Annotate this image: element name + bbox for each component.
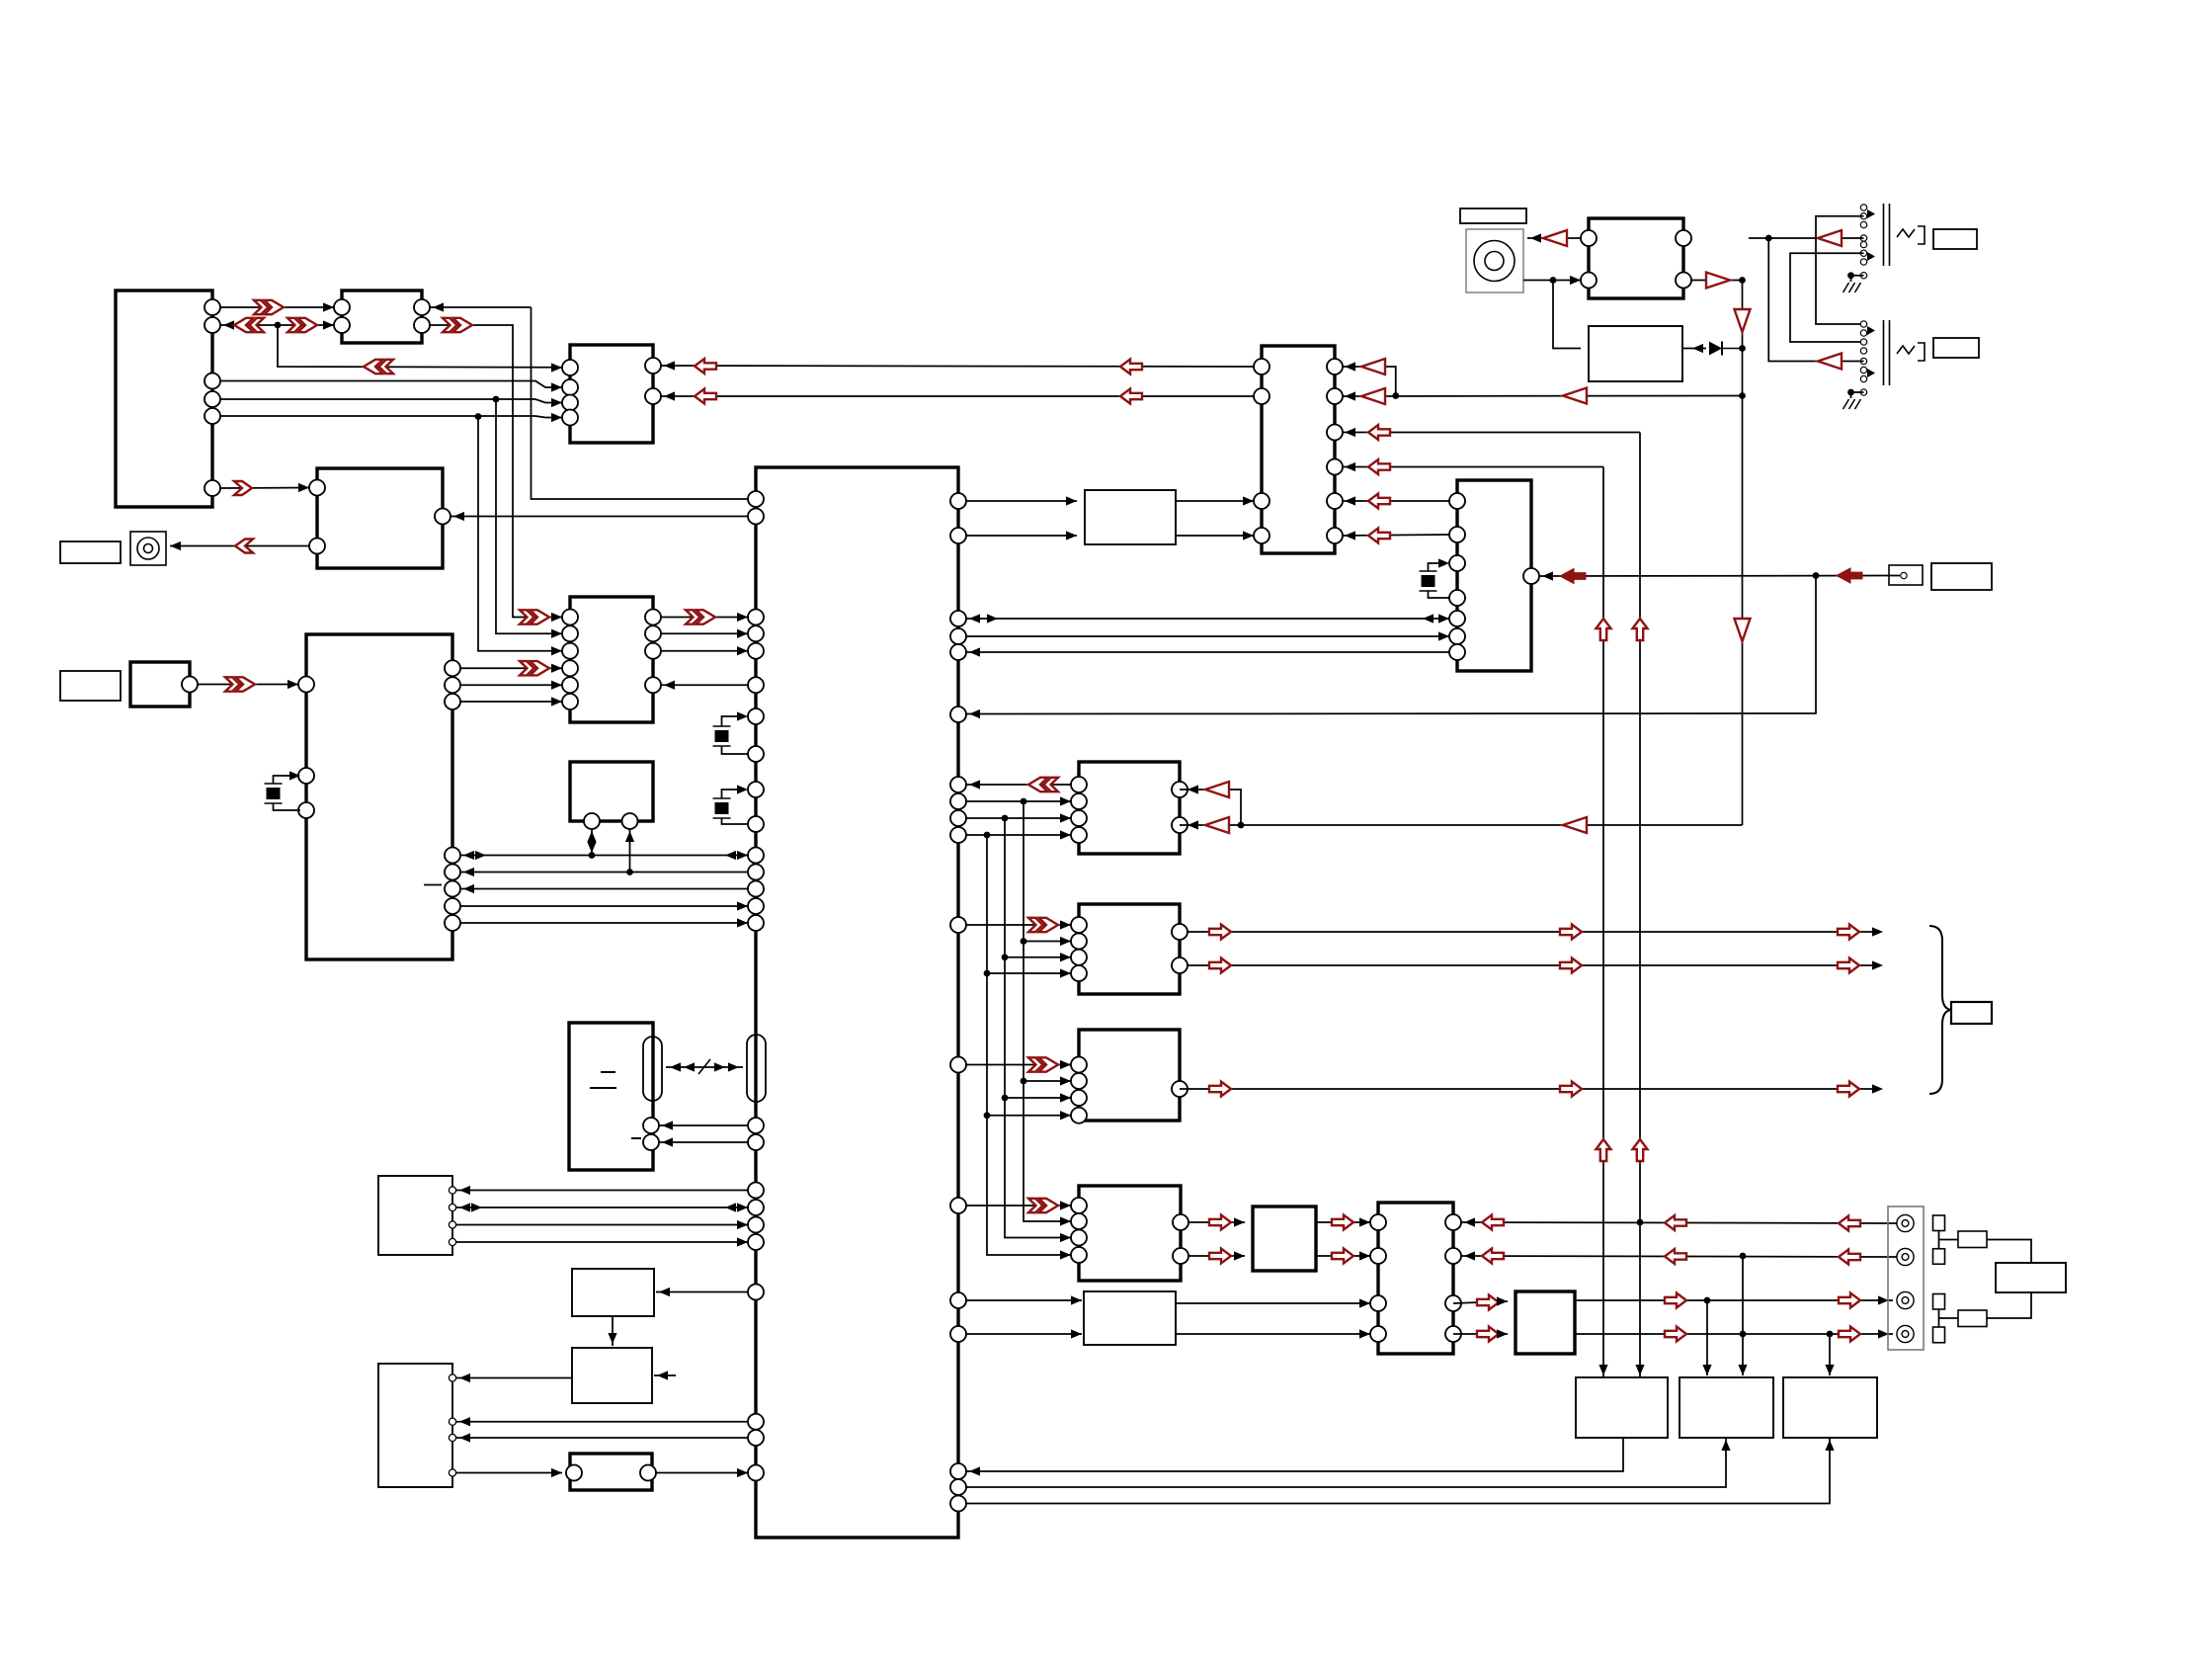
arrowhead into U13 <box>551 1468 562 1477</box>
arrowhead into U10 xtal <box>289 771 300 780</box>
wire U6 out1 to U5 <box>1176 500 1254 502</box>
power arrow left d <box>1368 459 1390 474</box>
out arrow R b <box>1560 958 1582 973</box>
wire supply into U5 pin3 <box>1343 432 1640 434</box>
up arrow on rail x1660 a <box>1633 619 1648 640</box>
wire U8 to M1 d0 <box>661 617 748 619</box>
wire J4 switch to J5 <box>1816 216 1864 324</box>
wire U8 to M1 d2 <box>661 650 748 652</box>
spk arrow left 1b <box>1665 1215 1686 1230</box>
up arrow on rail x1660 b <box>1633 1139 1648 1161</box>
junction on data3 <box>475 413 482 420</box>
arrowhead into G1 out2 <box>1188 820 1198 829</box>
wire G1 to M1 line1 <box>966 784 1071 786</box>
bus arrow right head <box>520 661 549 675</box>
diode D1 <box>1709 342 1722 356</box>
wire MCU to U6 in2 <box>966 535 1077 537</box>
arrowhead into S1 line2 <box>459 1203 470 1211</box>
wire MCU to U7 bus2 <box>966 635 1449 637</box>
U1 pin circles <box>205 299 220 496</box>
U4 pin circles <box>309 480 451 554</box>
junction spk L <box>1637 1219 1644 1226</box>
crystal X2 lead2 <box>722 746 749 754</box>
arrowhead into U7 remote <box>1542 571 1553 580</box>
M1 right pin circles <box>950 493 966 1512</box>
power key block S2 <box>378 1364 452 1487</box>
wire S1 line4 to M1 <box>456 1241 748 1243</box>
arrowhead into U2 pin2 <box>323 320 334 329</box>
wire vertical x502 to U8 pin2 <box>496 399 562 633</box>
CN3 terminal circles <box>1897 1214 1914 1342</box>
T901 pin circles <box>1581 230 1691 289</box>
arrowhead into U5 pin3 <box>1345 428 1355 437</box>
wire U1 data2 to U3 <box>220 399 562 403</box>
triangle arrow left inlet <box>1543 230 1567 246</box>
U7 pin circles <box>1449 493 1539 660</box>
arrowhead mark M1 key2 <box>725 1203 736 1211</box>
U2 pin circles <box>334 299 430 333</box>
arrowhead into U3 right pin2 <box>664 391 675 400</box>
label remnant dash B9 <box>424 884 442 886</box>
arrowhead aux out <box>1872 1084 1883 1093</box>
AC inlet J3 <box>1466 229 1523 292</box>
arrowhead into A3 ch1 <box>1359 1217 1370 1226</box>
rectifier block PS1 <box>1589 326 1682 381</box>
wire CN1 to U10 <box>198 684 298 686</box>
wire R1 to speaker box <box>1987 1240 2031 1264</box>
arrowhead line out R <box>1872 960 1883 969</box>
wire M1 to BT1 sense1 <box>659 1124 748 1126</box>
triangle arrow left b <box>1361 388 1385 404</box>
wire M1 to G3 <box>966 1064 1071 1066</box>
crystal X1 lead2 <box>274 803 301 810</box>
remote sensor jack J6 <box>1889 565 1923 585</box>
spk arrow right 5b <box>1839 1293 1860 1308</box>
wire A4 to speaker conn 2 <box>1575 1333 1893 1335</box>
regulator T2 <box>1679 1377 1773 1438</box>
bus arrow left <box>234 318 264 332</box>
bus arrow right G4 <box>1028 1199 1058 1212</box>
wire bus x519 into U8 <box>513 617 562 619</box>
arrowhead into BT1 s2 <box>662 1137 673 1146</box>
wire G1 out1 <box>1180 790 1241 825</box>
arrowhead into inlet <box>1530 233 1541 242</box>
wire remote branch to M1 <box>966 576 1816 714</box>
connector capsule CN2a <box>643 1037 662 1101</box>
stub into U12 right <box>654 1374 676 1376</box>
arrowhead into G3 l2 <box>1060 1076 1071 1085</box>
wire power line into U3 right pin2 <box>661 395 1254 397</box>
line out R wire <box>1188 964 1879 966</box>
wire power line into U3 right pin1 <box>661 366 1254 367</box>
wire U11 down to U12 <box>612 1316 614 1346</box>
arrowhead into U7 bus1 <box>1423 614 1434 623</box>
arrowhead into A3 sp1 <box>1464 1217 1475 1226</box>
power arrow left A2 <box>1120 360 1142 374</box>
tap wire G3 l2 <box>1024 1080 1071 1082</box>
junction G2 l3 <box>1002 954 1009 960</box>
wire U6 out2 to U5 <box>1176 535 1254 537</box>
U8 pin circles <box>562 610 661 710</box>
wire M1 to U11 <box>656 1291 748 1293</box>
label box J4 <box>1933 229 1977 249</box>
wire T3 bottom to M1 <box>966 1438 1830 1504</box>
ground symbol J4 <box>1843 283 1861 292</box>
tape bus line 5 <box>460 922 748 924</box>
arrowhead out MCU bus1 <box>987 614 998 623</box>
junction J4 tip <box>1765 235 1772 242</box>
arrowhead into U3 right pin1 <box>664 361 675 370</box>
arrowhead up into U9 pin1 <box>587 831 596 842</box>
crystal X3 lead2 <box>722 818 749 824</box>
arrowhead left tape1 <box>463 851 474 860</box>
arrowhead line out L <box>1872 927 1883 936</box>
junction inlet low <box>1550 277 1557 284</box>
arrowhead into U5 right pin1 <box>1345 362 1355 371</box>
power arrow left B2 <box>1120 389 1142 404</box>
chevron arrow right <box>234 481 252 495</box>
wire MCU to U7 bus1 <box>966 618 1449 620</box>
IC U2 front-end block <box>342 291 422 343</box>
speaker terminal sq4 <box>1933 1327 1945 1343</box>
arrowhead into U6 in1 <box>1066 496 1077 505</box>
solid arrow left remote b <box>1560 569 1586 584</box>
IC U8 CD processor <box>570 597 653 722</box>
wire A2 to A3 ch2 <box>1316 1255 1370 1257</box>
J5 body <box>1867 320 1925 385</box>
wire U12 to S2 <box>456 1377 572 1379</box>
A3 pin circles <box>1370 1214 1461 1342</box>
key matrix block S1 <box>378 1176 452 1255</box>
regulator T1 <box>1576 1377 1668 1438</box>
arrowhead into U5 pin6 <box>1345 531 1355 540</box>
speaker wire to R1 <box>1939 1239 1959 1241</box>
IC U3 IF block <box>570 345 653 443</box>
wire U1 data3 to U3 <box>220 416 562 418</box>
wire remote line <box>1539 575 1900 578</box>
ground symbol J5 <box>1843 399 1861 409</box>
U13 pin circles <box>566 1465 656 1481</box>
wire MCU to U6 in1 <box>966 500 1077 502</box>
tap wire G2 l3 <box>1005 957 1071 958</box>
crystal X4 leads <box>1429 563 1448 571</box>
wire M1 to G1 line4 <box>966 834 1071 836</box>
wire U5 right 371 to rail corner <box>1343 367 1396 396</box>
speaker connector CN3 <box>1888 1206 1924 1350</box>
wire spk junction to T2 b <box>1742 1256 1744 1375</box>
U10 left pin circles <box>298 677 314 819</box>
wire U9 pin2 to tape bus2 <box>629 829 631 873</box>
arrowhead into T901 low <box>1570 276 1581 285</box>
wire J5 tip line up to J4 <box>1768 238 1863 362</box>
wire U7 to MCU bus3 <box>966 651 1449 653</box>
wire G4 to A2 ch1 <box>1188 1221 1245 1223</box>
wire M1 to U8 d3 <box>661 684 748 686</box>
arrowhead into U2 right pin1 <box>433 302 444 311</box>
J4 body <box>1867 204 1925 266</box>
wire MCU to U4 enable <box>451 516 748 518</box>
wire U8 to M1 d1 <box>661 632 748 634</box>
IC U6 interface buffer <box>1085 490 1176 544</box>
out arrow R c <box>1838 958 1859 973</box>
wire A2 to A3 ch1 <box>1316 1221 1370 1223</box>
tape bus line 2 <box>460 872 748 874</box>
wire U1 to U2 top <box>220 306 334 308</box>
arrowhead into G2 l3 <box>1060 953 1071 961</box>
wire M1 to G2 <box>966 924 1071 926</box>
arrowhead into T2 top b <box>1738 1365 1747 1375</box>
wire U1 to U4 <box>220 487 309 490</box>
arrowhead into BT1 s1 <box>662 1121 673 1129</box>
spk arrow left 2b <box>1665 1249 1686 1264</box>
headphone jack J4 contacts <box>1860 205 1866 279</box>
arrowhead into M1 g1 <box>969 780 980 789</box>
tap wire G2 l4 <box>987 972 1071 974</box>
arrowhead mark S1 line2 <box>471 1203 482 1211</box>
arrowhead into M1 tape4 <box>737 901 748 910</box>
arrowhead into M1 xtal3 <box>737 785 748 793</box>
vertical bus xB <box>1005 818 1071 1238</box>
out arrow A3b <box>1332 1249 1353 1264</box>
arrowhead into G3 l3 <box>1060 1093 1071 1102</box>
arrowhead into A3 ch2 <box>1359 1251 1370 1260</box>
junction spk 4b <box>1827 1331 1834 1338</box>
crystal X3 leads <box>722 790 747 798</box>
connector CN1 motor <box>130 662 190 707</box>
crystal X2 <box>713 726 731 746</box>
line out L wire <box>1188 931 1879 933</box>
IC U10 tape mechanism controller <box>306 634 452 959</box>
arrowhead into U4 right pin <box>453 512 464 521</box>
IC A3 power amplifier <box>1378 1203 1453 1354</box>
arrowhead into G1 l2 <box>1060 796 1071 805</box>
arrowhead into G3 l4 <box>1060 1111 1071 1120</box>
regulator T3 <box>1783 1377 1877 1438</box>
junction spk 4a <box>1740 1331 1747 1338</box>
wire U1 data1 to U3 <box>220 381 562 388</box>
triangle arrow left G1b <box>1205 817 1229 833</box>
arrowhead into U3 pin4 <box>551 413 562 422</box>
solid arrow left remote a <box>1837 568 1862 583</box>
junction G2 l4 <box>984 970 991 977</box>
arrowhead into U3 pin2 <box>551 382 562 391</box>
arrowhead into S1 line1 <box>459 1186 470 1195</box>
S2 pin circles <box>449 1374 455 1476</box>
label box AC <box>1460 208 1526 223</box>
wire spk junction to T3 <box>1829 1334 1831 1375</box>
wire S2 to U13 <box>456 1472 562 1474</box>
arrowhead into conn 1 <box>1878 1295 1889 1304</box>
bus arrow right U8 <box>686 610 715 624</box>
power arrow left B <box>695 389 716 404</box>
arrowhead into S2 line2 <box>459 1433 470 1442</box>
out arrow X a <box>1209 1082 1231 1097</box>
tap wire G3 l3 <box>1005 1097 1071 1099</box>
junction g4 tap <box>984 832 991 839</box>
bus arrow right <box>254 300 284 314</box>
wire U2 out top from vertical bus <box>430 306 532 308</box>
IC G2 audio DAC <box>1079 904 1180 994</box>
arrowhead into A3 in4 <box>1359 1329 1370 1338</box>
G1 pin circles <box>1071 777 1188 843</box>
junction G3 l3 <box>1002 1095 1009 1102</box>
bus arrow right 2 <box>287 318 317 332</box>
arrowhead into MCU bus1 <box>969 614 980 623</box>
arrowhead up into U9 pin2 <box>625 831 634 842</box>
spk arrow right 6b <box>1839 1327 1860 1342</box>
arrowhead into A4 in1 <box>1497 1296 1508 1305</box>
arrowhead into U5 pin4 <box>1345 462 1355 471</box>
arrowhead into U7 xtal pin <box>1438 558 1449 567</box>
arrowhead into mute1 <box>1071 1295 1082 1304</box>
arrowhead into U6 in2 <box>1066 531 1077 540</box>
supply rail vertical x1623 <box>1602 467 1604 1378</box>
wire G1 out2 to rail <box>1180 824 1743 826</box>
arrowhead into G1 l4 <box>1060 830 1071 839</box>
arrowhead up into T2 bottom <box>1721 1440 1730 1451</box>
junction spk 3 <box>1704 1297 1711 1304</box>
bus arrow double left <box>364 360 393 374</box>
wire M1 to G1 line2 <box>966 800 1071 802</box>
resistor R2 <box>1958 1310 1987 1327</box>
ribbon bus CN2 <box>666 1066 743 1068</box>
speaker terminal sq3 <box>1933 1294 1945 1310</box>
arrowhead into mute2 <box>1071 1329 1082 1338</box>
wire M1 to mute2 <box>966 1333 1082 1335</box>
arrowhead into M1 key3 <box>737 1220 748 1229</box>
arrowhead into U5 pin5 <box>1345 496 1355 505</box>
curly brace line out <box>1929 926 1951 1094</box>
wire A3 out3 to A4 <box>1453 1301 1508 1303</box>
arrowhead down on U9 stub <box>587 842 596 853</box>
arrowhead into G3 <box>1060 1060 1071 1069</box>
arrowhead into M1 tape5 <box>737 918 748 927</box>
out arrow A2b <box>1209 1249 1231 1264</box>
arrowhead into A4 in2 <box>1497 1329 1508 1338</box>
arrowhead into G4 l3 <box>1060 1233 1071 1242</box>
wire M1 to G4 <box>966 1205 1071 1206</box>
junction rail top <box>1739 277 1746 284</box>
wire M1 to mute1 <box>966 1299 1082 1301</box>
tape bus line 4 <box>460 905 748 907</box>
crystal X3 <box>713 798 731 818</box>
U10 right pin circles <box>445 660 460 931</box>
arrowhead into G1 out1 <box>1188 785 1198 793</box>
resistor R1 <box>1958 1231 1987 1248</box>
IC U9 servo driver <box>570 762 653 821</box>
power arrow left c <box>1368 425 1390 440</box>
wire mute to A3 in4 <box>1176 1333 1370 1335</box>
M1 left pin circles <box>748 491 764 1481</box>
battery block BT1 <box>569 1023 653 1170</box>
junction node A <box>275 322 282 329</box>
up arrow on rail x1623 b <box>1597 1139 1611 1161</box>
arrowhead into M1 t1 <box>969 1466 980 1475</box>
up arrow on rail x1623 a <box>1597 619 1611 640</box>
bus arrow left G1 <box>1028 778 1058 791</box>
wire J4 tip line <box>1749 237 1864 239</box>
junction rail y400 <box>1392 392 1399 399</box>
arrowhead into U8 pin2 <box>551 629 562 638</box>
wire U10 to U8 head1 <box>460 667 562 669</box>
wire U2 to U1 return <box>220 324 334 326</box>
tap wire G2 l2 <box>1024 941 1071 943</box>
IC U7 system microcontroller <box>1457 480 1531 671</box>
label box J5 <box>1933 338 1979 358</box>
IC U5 stereo decoder <box>1262 346 1335 553</box>
junction J4 gnd <box>1847 272 1854 279</box>
IC U4 timer block <box>317 468 443 568</box>
arrowhead into U3 pin3 <box>551 398 562 407</box>
spk arrow left 2a <box>1482 1249 1504 1264</box>
spk arrow right 4 <box>1477 1327 1499 1342</box>
wire speaker L feedback <box>1461 1222 1897 1223</box>
junction G2 l2 <box>1021 938 1027 945</box>
wire T901 sec to rail <box>1691 280 1743 282</box>
arrowhead into M1 xtal2 <box>737 711 748 720</box>
arrowhead into U11 <box>659 1288 670 1296</box>
label box line out <box>1951 1002 1992 1024</box>
speaker terminal sq2 <box>1933 1249 1945 1265</box>
vertical bus xC <box>987 835 1071 1255</box>
wire speaker R feedback <box>1461 1256 1897 1257</box>
arrowhead mark CN2b left <box>714 1062 725 1071</box>
arrowhead into M1 pwr <box>737 1468 748 1477</box>
wire inlet branch to PSU <box>1553 281 1581 349</box>
crystal X4 lead2 <box>1429 591 1450 598</box>
crystal X1 for U10 <box>265 784 283 803</box>
spk arrow right 6a <box>1665 1327 1686 1342</box>
wire mute to A3 in3 <box>1176 1302 1370 1304</box>
junction rail x1763 <box>1739 392 1746 399</box>
wire U7 to U5 pin5 <box>1343 500 1449 502</box>
junction J5 gnd <box>1847 389 1854 396</box>
out arrow R a <box>1209 958 1231 973</box>
arrowhead into amp T1 top a <box>1635 1365 1644 1375</box>
arrowhead into U5 left pin3 <box>1243 496 1254 505</box>
arrowhead into U1 pin2 <box>223 320 234 329</box>
arrowhead into S2 p1 <box>459 1373 470 1382</box>
power rail vertical <box>1742 281 1744 826</box>
speaker terminal sq1 <box>1933 1215 1945 1231</box>
wire G4 to A2 ch2 <box>1188 1255 1245 1257</box>
triangle arrow left J5 <box>1818 354 1842 370</box>
wire vertical x484 to U8 pin3 <box>478 417 562 651</box>
BT1 pin circles <box>643 1118 659 1150</box>
wire T901 to inlet <box>1527 237 1581 239</box>
spk arrow right 3 <box>1477 1295 1499 1310</box>
bus arrow right G3 <box>1028 1057 1058 1071</box>
IC U1 tuner block <box>116 291 212 507</box>
label box J2 <box>60 671 121 701</box>
arrowhead in U7 bus1 <box>1438 614 1449 623</box>
arrowhead into T2 top a <box>1702 1365 1711 1375</box>
triangle arrow left G1c <box>1563 817 1587 833</box>
G2 pin circles <box>1071 917 1188 981</box>
wire M1 to BT1 sense2 <box>659 1141 748 1143</box>
U5 pin circles <box>1254 359 1343 543</box>
arrowhead into G4 l2 <box>1060 1216 1071 1225</box>
speaker wire to R2 <box>1939 1317 1959 1319</box>
spk arrow left 2c <box>1839 1250 1860 1265</box>
speaker wire link1 <box>1938 1231 1940 1249</box>
out arrow X c <box>1838 1082 1859 1097</box>
wire A3 out4 to A4 <box>1453 1333 1508 1335</box>
triangle arrow down rail a <box>1735 309 1751 332</box>
crystal X2 leads <box>722 716 747 726</box>
junction g3 tap <box>1002 815 1009 822</box>
arrowhead into U5 right pin2 <box>1345 391 1355 400</box>
